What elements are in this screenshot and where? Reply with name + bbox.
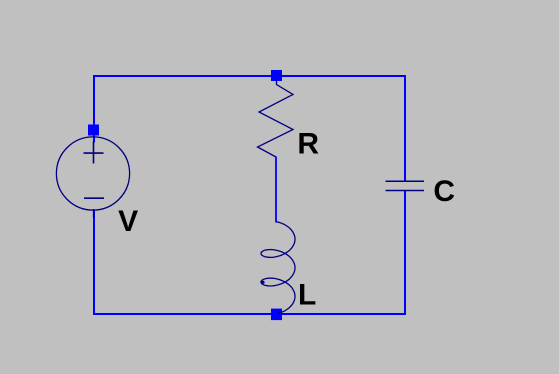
inductor L coil <box>261 222 295 314</box>
voltage source bottom stub <box>93 209 95 218</box>
capacitor C bottom plate <box>386 190 425 192</box>
node at top of voltage source <box>88 125 99 136</box>
svg-text:C: C <box>433 175 455 208</box>
node bottom middle junction <box>271 309 282 321</box>
svg-text:R: R <box>297 128 319 161</box>
wire top rail <box>93 75 406 77</box>
wire left rail upper <box>93 75 95 143</box>
capacitor C top plate <box>386 180 425 182</box>
voltage source minus sign <box>84 197 104 199</box>
svg-text:V: V <box>118 205 138 238</box>
wire bottom rail <box>93 313 406 315</box>
node top middle junction <box>271 70 282 81</box>
resistor R zigzag <box>258 81 294 158</box>
voltage source plus sign <box>84 142 104 164</box>
wire between resistor and inductor <box>275 157 277 223</box>
wire left rail lower <box>93 210 95 315</box>
svg-text:L: L <box>298 278 316 311</box>
inductor crossing dot <box>261 281 264 284</box>
wire right rail lower <box>404 191 406 316</box>
voltage source V circle <box>56 137 129 210</box>
wire right rail upper <box>404 75 406 181</box>
